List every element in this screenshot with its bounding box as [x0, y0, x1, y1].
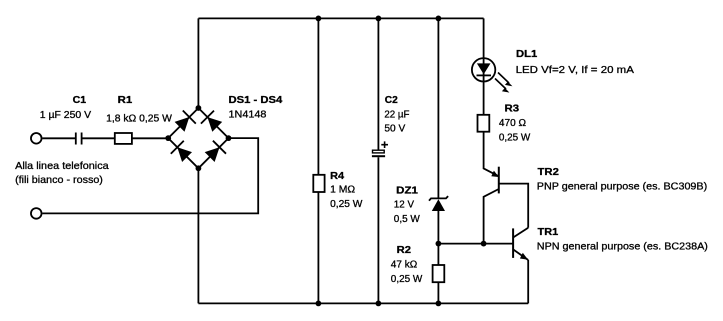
svg-text:R2: R2	[397, 244, 412, 256]
node bridge top	[196, 105, 202, 111]
wire DZ1 branch upper	[437, 18, 439, 198]
svg-text:50 V: 50 V	[384, 123, 405, 135]
svg-text:R4: R4	[330, 170, 344, 182]
node bridge right	[226, 135, 232, 141]
wire R2 to bottom rail	[437, 282, 439, 303]
wire R3 to TR2 emitter	[484, 132, 499, 177]
svg-text:R1: R1	[118, 94, 133, 106]
node base line / TR2 collector	[481, 241, 487, 247]
wire R4 branch upper	[317, 18, 319, 174]
svg-text:0,25 W: 0,25 W	[391, 273, 423, 285]
svg-text:(fili bianco - rosso): (fili bianco - rosso)	[15, 174, 103, 186]
node bridge bottom	[196, 165, 202, 171]
svg-text:1 MΩ: 1 MΩ	[330, 184, 355, 196]
node top rail / DZ1	[436, 16, 442, 22]
wire TR2 collector down to TR1 base node	[484, 189, 499, 244]
svg-text:LED Vf=2 V, If = 20 mA: LED Vf=2 V, If = 20 mA	[516, 64, 634, 76]
wire bridge bottom to bottom rail	[197, 168, 199, 303]
node bottom rail / R2	[436, 301, 442, 307]
svg-text:1 µF 250 V: 1 µF 250 V	[40, 109, 91, 121]
diode DS1 top-left	[175, 111, 196, 132]
wire C2 branch lower	[377, 157, 379, 303]
svg-text:22 µF: 22 µF	[384, 108, 409, 120]
node bridge left	[165, 135, 171, 141]
wire DZ1 to R2	[437, 211, 439, 265]
svg-text:1N4148: 1N4148	[229, 108, 267, 120]
svg-text:TR1: TR1	[538, 226, 559, 238]
wire top rail	[198, 17, 483, 19]
capacitor C1	[76, 133, 82, 145]
svg-text:DL1: DL1	[516, 48, 537, 60]
resistor R3	[478, 115, 490, 132]
wire bottom rail	[198, 302, 528, 304]
svg-text:0,5 W: 0,5 W	[394, 213, 420, 225]
node bottom rail / R4	[316, 301, 322, 307]
svg-text:DZ1: DZ1	[396, 184, 418, 196]
terminal bottom	[31, 208, 42, 219]
wire C2 branch upper	[377, 18, 379, 150]
zener DZ1	[429, 196, 448, 211]
svg-text:47 kΩ: 47 kΩ	[391, 259, 418, 271]
diode DS4 bottom-right	[205, 141, 226, 162]
svg-text:0,25 W: 0,25 W	[499, 132, 530, 144]
node base line / DZ1-R2	[436, 241, 442, 247]
node top rail / C2	[376, 16, 382, 22]
transistor TR2	[491, 167, 499, 194]
diode bridge DS1-DS4 diamond	[168, 108, 228, 168]
transistor TR1	[513, 228, 528, 260]
wire LED branch from top rail through LED to R3	[483, 18, 485, 114]
wire input bottom terminal to bridge right	[42, 138, 258, 213]
svg-text:1,8 kΩ 0,25 W: 1,8 kΩ 0,25 W	[106, 113, 172, 125]
svg-text:TR2: TR2	[538, 166, 560, 178]
svg-text:R3: R3	[505, 103, 520, 115]
svg-text:NPN general purpose (es. BC238: NPN general purpose (es. BC238A)	[537, 241, 708, 253]
capacitor C2 electrolytic	[372, 141, 388, 156]
svg-text:C2: C2	[385, 94, 398, 106]
svg-text:0,25 W: 0,25 W	[330, 198, 362, 210]
svg-text:12 V: 12 V	[394, 199, 414, 211]
wire R1 to bridge left	[132, 137, 168, 139]
resistor R2	[433, 265, 445, 282]
svg-text:470 Ω: 470 Ω	[499, 117, 526, 129]
terminal top	[31, 133, 42, 144]
svg-text:PNP general purpose (es. BC309: PNP general purpose (es. BC309B)	[537, 181, 707, 193]
wire TR1 emitter to bottom rail	[527, 260, 529, 303]
wire base line DZ1 node to TR1	[438, 243, 513, 245]
node bottom rail / C2	[376, 301, 382, 307]
wire input top terminal to C1	[42, 137, 75, 139]
wire bridge top to top rail	[197, 18, 199, 108]
wire TR2 base to TR1 collector	[499, 184, 528, 228]
svg-text:Alla linea telefonica: Alla linea telefonica	[15, 160, 109, 172]
svg-text:C1: C1	[73, 94, 87, 106]
LED DL1	[472, 58, 513, 92]
node top rail / R4	[316, 16, 322, 22]
diode DS3 bottom-left	[171, 141, 192, 162]
wire C1 to R1	[82, 137, 114, 139]
diode DS2 top-right	[201, 111, 222, 132]
resistor R4	[313, 175, 324, 192]
svg-text:DS1 - DS4: DS1 - DS4	[229, 94, 283, 106]
resistor R1	[115, 133, 132, 144]
wire R4 branch lower	[317, 192, 319, 303]
